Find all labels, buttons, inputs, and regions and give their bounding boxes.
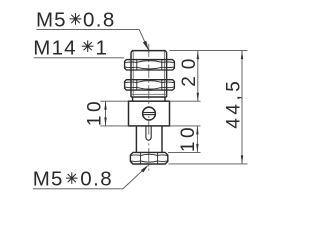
svg-text:M5: M5 bbox=[36, 8, 67, 31]
hex jam nut 1 (upper) bbox=[125, 60, 175, 70]
slotted screw head circle bbox=[143, 107, 156, 120]
leader line of bottom M5*0.8 with arrow bbox=[33, 167, 147, 189]
extension line block top right bbox=[170, 100, 201, 102]
svg-text:0.8: 0.8 bbox=[80, 168, 113, 191]
svg-text:10: 10 bbox=[178, 124, 199, 152]
dimension line 10 left bbox=[105, 101, 107, 126]
leader line of top M5*0.8 with arrow bbox=[37, 30, 149, 50]
svg-text:0.8: 0.8 bbox=[83, 8, 116, 31]
body block bbox=[129, 101, 170, 126]
extension line block bottom left bbox=[100, 125, 128, 127]
leader line of M14*1 bbox=[34, 57, 125, 59]
U slot in stem bbox=[146, 126, 151, 140]
thread minor diameter lines bbox=[131, 51, 167, 97]
hex jam nut 2 (lower) bbox=[125, 80, 175, 90]
svg-text:10: 10 bbox=[85, 98, 106, 126]
bottom hex nut bbox=[130, 152, 167, 164]
neck between rod and block bbox=[133, 97, 165, 101]
extension line nut bottom (to 44,5) bbox=[169, 163, 248, 165]
svg-text:M5: M5 bbox=[33, 168, 64, 191]
dimension line 20 bbox=[197, 51, 199, 102]
extension line top (rod top to 44,5) bbox=[170, 50, 248, 52]
label M5*0.8 bottom text bbox=[33, 168, 113, 191]
dimension line 44,5 bbox=[241, 51, 243, 164]
asterisk star of top label bbox=[70, 13, 82, 25]
extension line block bottom right bbox=[170, 125, 201, 127]
threaded rod body (top section) bbox=[131, 51, 167, 97]
centerline (dash-dot) bbox=[148, 44, 150, 171]
asterisk star of bottom label bbox=[66, 172, 78, 184]
dimension line 10 right bbox=[196, 126, 198, 152]
svg-text:M14: M14 bbox=[33, 36, 76, 59]
svg-text:44,5: 44,5 bbox=[223, 78, 244, 129]
lower stem bbox=[136, 126, 162, 152]
asterisk star of M14*1 bbox=[82, 40, 94, 52]
screw slot lines bbox=[143, 113, 156, 115]
svg-text:1: 1 bbox=[96, 36, 107, 59]
extension line nut top right bbox=[168, 151, 201, 153]
svg-text:20: 20 bbox=[179, 52, 200, 87]
label M5*0.8 top text bbox=[36, 8, 116, 31]
extension line block top left bbox=[100, 100, 128, 102]
label M14*1 text bbox=[33, 36, 107, 59]
